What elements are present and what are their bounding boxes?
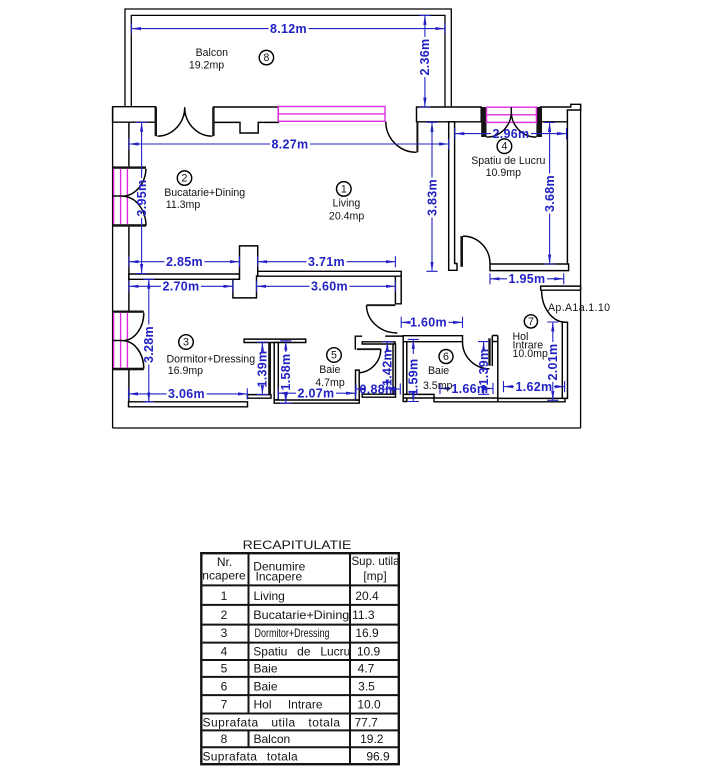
- svg-text:20.4: 20.4: [355, 589, 379, 603]
- svg-text:3.60m: 3.60m: [311, 280, 348, 294]
- svg-text:2: 2: [221, 608, 228, 622]
- dim 3.83m vertical: [425, 122, 439, 271]
- table outer box: [201, 553, 398, 764]
- wall left outer line: [112, 107, 114, 428]
- svg-text:1.39m: 1.39m: [477, 349, 491, 386]
- dim 1.58m vertical: [279, 341, 293, 403]
- svg-text:Balcon: Balcon: [196, 47, 228, 59]
- wall living bottom-right stub: [395, 276, 401, 304]
- svg-text:RECAPITULATIE: RECAPITULATIE: [243, 538, 352, 552]
- svg-text:8: 8: [263, 52, 269, 64]
- window W1 bucatarie caps: [113, 166, 146, 168]
- window W3 living magenta: [278, 107, 385, 122]
- svg-text:Baie: Baie: [428, 365, 449, 377]
- wall baie6 top band: [403, 336, 462, 342]
- svg-text:11.3mp: 11.3mp: [166, 199, 201, 211]
- door D3 swing arc: [463, 236, 490, 264]
- svg-text:11.3: 11.3: [352, 608, 375, 622]
- wall niche bottom: [362, 394, 395, 397]
- wall spatiu bottom: [490, 264, 569, 271]
- door D5 niche leaf: [357, 348, 381, 350]
- wall bucatarie/dormitor horizontal left band: [129, 274, 240, 279]
- wall baie5 left: [274, 343, 278, 401]
- window W2 mid divider: [113, 340, 123, 342]
- door D7 entrance swing arc: [542, 290, 566, 322]
- dim 3.71m: [258, 255, 396, 269]
- dim 1.59m vertical: [407, 339, 421, 401]
- svg-text:2.96m: 2.96m: [493, 127, 530, 141]
- window W4 swing arcs: [487, 107, 537, 137]
- svg-text:Bucatarie+Dining: Bucatarie+Dining: [253, 608, 349, 622]
- svg-text:2.70m: 2.70m: [163, 280, 200, 294]
- door D6 baie6 leaf: [488, 338, 490, 365]
- dim 3.68m vertical: [543, 123, 557, 265]
- svg-text:7: 7: [221, 698, 228, 712]
- svg-text:Nr.: Nr.: [217, 555, 232, 569]
- dim 1.62m: [504, 380, 565, 394]
- svg-text:7: 7: [528, 316, 534, 328]
- room 4 circle: [497, 139, 512, 154]
- svg-text:1.42m: 1.42m: [381, 349, 395, 386]
- room 6 circle: [439, 350, 453, 364]
- svg-text:16.9: 16.9: [355, 626, 379, 640]
- svg-text:Bucatarie+Dining: Bucatarie+Dining: [164, 187, 245, 199]
- svg-text:1.58m: 1.58m: [279, 354, 293, 391]
- svg-text:20.4mp: 20.4mp: [329, 210, 364, 222]
- wall hol right: [562, 322, 567, 398]
- dim 1.42m vertical: [381, 342, 395, 389]
- room 5 circle: [327, 348, 342, 363]
- dim 1.39m vertical: [477, 342, 491, 395]
- svg-text:Balcon: Balcon: [254, 732, 291, 746]
- dim 1.95m: [490, 272, 564, 286]
- svg-text:Suprafata totala: Suprafata totala: [203, 750, 299, 764]
- dim 2.36m vertical: [418, 15, 432, 107]
- svg-text:Spatiu de Lucru: Spatiu de Lucru: [253, 645, 350, 659]
- dim 1.60m: [401, 316, 462, 330]
- svg-text:4: 4: [501, 141, 507, 153]
- dim 1.39m vertical: [256, 342, 270, 394]
- svg-text:1: 1: [341, 183, 347, 195]
- wall living/spatiu vertical: [449, 122, 457, 270]
- svg-text:4.7: 4.7: [358, 662, 375, 676]
- svg-text:Ap.A1a.1.10: Ap.A1a.1.10: [548, 302, 610, 314]
- window W2 dormitor caps: [113, 311, 144, 313]
- wall entrance jut: [541, 286, 581, 290]
- door D2 living balcony leaf: [416, 122, 418, 152]
- wall hol bottom: [498, 398, 565, 401]
- outer boundary bottom: [113, 427, 581, 429]
- svg-text:19.2mp: 19.2mp: [189, 60, 224, 72]
- balcony outline outer: [125, 9, 451, 107]
- door D3 spatiu leaf: [460, 236, 463, 267]
- svg-text:1.95m: 1.95m: [509, 272, 546, 286]
- svg-text:1.59m: 1.59m: [407, 359, 421, 396]
- svg-text:10.0mp: 10.0mp: [513, 348, 548, 360]
- dim 1.66m: [440, 382, 493, 396]
- svg-text:10.9: 10.9: [357, 645, 381, 659]
- svg-text:3.28m: 3.28m: [142, 326, 156, 363]
- room 2 circle: [177, 171, 191, 185]
- dim 8.12m: [132, 22, 445, 36]
- svg-text:Dormitor+Dressing: Dormitor+Dressing: [255, 626, 330, 640]
- window W4 magenta: [487, 107, 537, 122]
- wall top right of spatiu window, with corner step: [540, 104, 580, 122]
- svg-text:3.5mp: 3.5mp: [423, 380, 453, 392]
- wall top segment with notch: [214, 107, 279, 133]
- svg-text:8: 8: [221, 732, 228, 746]
- door D4 living-hall leaf: [367, 304, 396, 306]
- dim 3.95m vertical: [135, 122, 149, 273]
- svg-text:3.68m: 3.68m: [543, 175, 557, 212]
- svg-text:1.39m: 1.39m: [256, 351, 270, 388]
- wall spatiu right inner face: [566, 122, 568, 264]
- wall left inner face upper: [128, 122, 130, 166]
- svg-text:10.0: 10.0: [357, 698, 381, 712]
- wall nook partition vertical: [268, 342, 271, 395]
- dim 0.88m: [356, 382, 400, 396]
- wall baie6 bottom stepped: [403, 394, 498, 401]
- svg-text:1.60m: 1.60m: [410, 316, 447, 330]
- svg-text:Incapere: Incapere: [256, 570, 303, 584]
- window W1 magenta lines: [114, 169, 128, 224]
- door D1 balcony double leaves: [155, 107, 157, 136]
- dim 2.70m: [129, 280, 233, 294]
- svg-text:Sup. utila: Sup. utila: [352, 554, 400, 568]
- svg-text:Hol Intrare: Hol Intrare: [254, 698, 323, 712]
- door D4 swing arc: [367, 305, 398, 333]
- svg-text:1: 1: [221, 589, 228, 603]
- dim 3.60m: [257, 280, 396, 294]
- window W2 swing arcs: [122, 313, 143, 369]
- svg-text:Baie: Baie: [319, 364, 340, 376]
- svg-text:10.9mp: 10.9mp: [486, 167, 521, 179]
- svg-text:96.9: 96.9: [366, 750, 390, 764]
- svg-text:2.85m: 2.85m: [166, 255, 203, 269]
- svg-text:6: 6: [443, 351, 449, 363]
- window W4 spatiu jamb bars: [481, 107, 486, 137]
- svg-text:Baie: Baie: [254, 662, 278, 676]
- wall niche lintel band: [362, 342, 395, 344]
- door D6 swing arc: [463, 342, 490, 369]
- outer boundary right: [580, 104, 582, 428]
- wall baie5 right lower: [356, 370, 360, 400]
- wall nook step band: [248, 395, 272, 399]
- svg-text:3.83m: 3.83m: [425, 179, 439, 216]
- room 1 circle: [337, 182, 352, 197]
- svg-text:3.95m: 3.95m: [135, 180, 149, 217]
- table grid: [201, 553, 398, 764]
- svg-text:Suprafata utila totala: Suprafata utila totala: [203, 716, 341, 730]
- svg-text:16.9mp: 16.9mp: [168, 365, 203, 377]
- wall line niche to baie6: [385, 335, 403, 337]
- svg-text:8.27m: 8.27m: [272, 137, 309, 151]
- dim 3.06m: [129, 387, 248, 401]
- table col line 2: [349, 553, 351, 764]
- window W2 magenta lines: [114, 313, 128, 368]
- wall niche right: [393, 344, 396, 394]
- wall left inner face lower: [128, 369, 130, 402]
- svg-text:3: 3: [221, 626, 228, 640]
- room 7 circle: [524, 315, 537, 328]
- wall baie5 bottom: [274, 400, 359, 403]
- svg-text:3: 3: [183, 337, 189, 349]
- svg-text:Living: Living: [254, 589, 285, 603]
- svg-text:Baie: Baie: [254, 679, 278, 693]
- svg-text:2: 2: [182, 173, 188, 185]
- dim 2.07m: [278, 387, 355, 401]
- table col line 1: [248, 553, 250, 747]
- wall niche upper-left L piece: [355, 336, 362, 349]
- wall dormitor bottom: [129, 402, 248, 407]
- window W1 swing arcs: [122, 169, 146, 226]
- wall baie6/hol jamb lines: [492, 336, 498, 399]
- svg-text:ncapere: ncapere: [202, 569, 246, 583]
- dim 2.01m vertical: [546, 322, 560, 400]
- window W1 mid divider: [113, 195, 122, 197]
- svg-text:Dormitor+Dressing: Dormitor+Dressing: [166, 353, 255, 365]
- svg-text:3.5: 3.5: [358, 679, 375, 693]
- room 8 circle: [259, 50, 273, 64]
- svg-text:1.62m: 1.62m: [516, 380, 553, 394]
- door D2 swing arc: [386, 122, 417, 153]
- wall left inner face mid: [128, 227, 130, 312]
- table row lines: [201, 585, 398, 747]
- svg-text:2.01m: 2.01m: [546, 344, 560, 381]
- wall living bottom band right: [258, 271, 402, 276]
- door D5 swing arc: [359, 349, 381, 373]
- dim 8.27m: [129, 137, 449, 151]
- svg-text:3.71m: 3.71m: [308, 255, 345, 269]
- svg-text:3.06m: 3.06m: [168, 387, 205, 401]
- svg-text:77.7: 77.7: [355, 716, 379, 730]
- room 3 circle: [179, 335, 194, 350]
- wall top band over nook and baie5: [244, 339, 306, 342]
- svg-text:4: 4: [221, 645, 228, 659]
- svg-text:Living: Living: [333, 198, 361, 210]
- balcony outline inner: [131, 15, 445, 107]
- svg-text:2.36m: 2.36m: [418, 39, 432, 76]
- wall baie6 left: [403, 342, 407, 402]
- svg-text:6: 6: [221, 679, 228, 693]
- dim 2.96m: [455, 127, 567, 141]
- svg-text:Spatiu de Lucru: Spatiu de Lucru: [471, 155, 545, 167]
- svg-text:4.7mp: 4.7mp: [315, 377, 345, 389]
- wall top block right of living window: [417, 107, 482, 122]
- svg-text:19.2: 19.2: [360, 732, 384, 746]
- pillar column: [233, 246, 258, 298]
- svg-text:[mp]: [mp]: [363, 569, 386, 583]
- dim 2.85m: [129, 255, 240, 269]
- svg-text:5: 5: [331, 350, 337, 362]
- svg-text:5: 5: [221, 662, 228, 676]
- door D1 swing arcs: [157, 107, 212, 136]
- wall top-left corner block: [113, 107, 156, 123]
- svg-text:8.12m: 8.12m: [270, 22, 307, 36]
- dim 3.28m vertical: [142, 279, 156, 402]
